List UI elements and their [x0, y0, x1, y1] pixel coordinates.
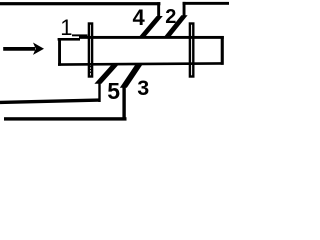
electrode lead 2 (diagonal) — [163, 15, 188, 38]
electrode 5 vertical lead — [98, 83, 100, 102]
right Brewster window — [190, 24, 193, 77]
input arrow shaft — [3, 47, 35, 51]
wire top-left vertical drop — [157, 2, 160, 16]
wire top-left horizontal — [0, 2, 160, 5]
label 1 — [60, 15, 72, 41]
left Brewster window — [89, 24, 92, 77]
wire bottom-left horizontal — [0, 100, 100, 102]
wire top-right horizontal — [183, 2, 229, 5]
tube bottom edge — [58, 63, 224, 64]
label 5 — [107, 78, 120, 105]
electrode 3 vertical lead — [122, 87, 125, 121]
electrode lead 3 (diagonal) — [120, 63, 144, 88]
tube top edge main segment — [79, 36, 224, 39]
tube left edge — [58, 38, 61, 66]
wire top-right vertical — [183, 2, 186, 17]
electrode lead 5 (diagonal) — [94, 63, 119, 84]
electrode lead 4 (diagonal) — [138, 16, 163, 38]
left window hatch dashes — [90, 66, 92, 67]
input arrow head — [33, 43, 44, 55]
wire bottom horizontal — [4, 117, 127, 120]
tube top edge scan-doubled piece — [72, 34, 87, 36]
label 3 — [137, 76, 149, 101]
label 4 — [133, 5, 145, 31]
tube right edge — [221, 36, 224, 65]
label 2 — [165, 6, 176, 29]
tube top edge left segment — [58, 38, 80, 41]
